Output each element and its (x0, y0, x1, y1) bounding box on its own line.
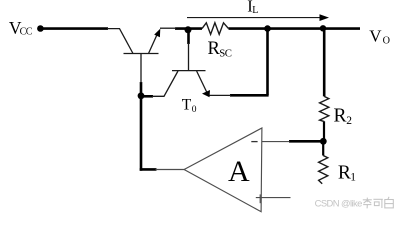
svg-text:L: L (252, 5, 258, 16)
svg-text:2: 2 (346, 115, 352, 127)
svg-text:A: A (228, 155, 250, 188)
svg-text:0: 0 (192, 105, 197, 115)
svg-text:CSDN @like: CSDN @like (315, 198, 363, 209)
svg-text:SC: SC (219, 47, 232, 59)
svg-text:V: V (369, 26, 382, 45)
svg-text:1: 1 (350, 171, 356, 183)
svg-text:CC: CC (20, 27, 33, 38)
svg-text:T: T (182, 96, 192, 113)
svg-text:O: O (383, 36, 390, 47)
svg-text:R: R (338, 162, 351, 183)
svg-text:R: R (334, 106, 347, 127)
